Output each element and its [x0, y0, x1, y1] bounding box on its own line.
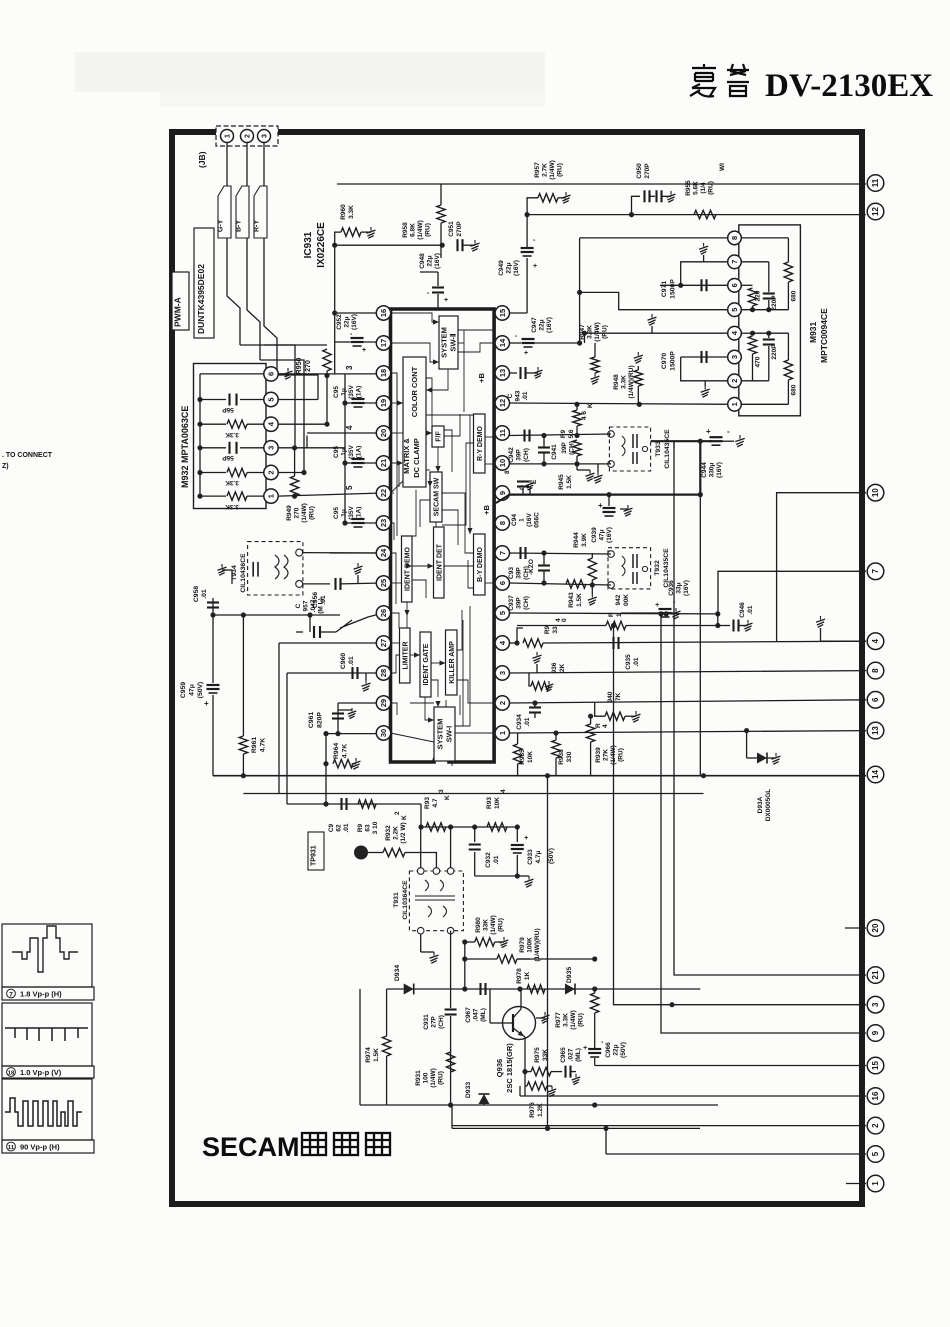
transformer T932 CIL10435CE dashed: [608, 548, 651, 589]
svg-text:K: K: [587, 403, 594, 408]
wire pin10 row: [510, 463, 612, 465]
svg-text:7K: 7K: [615, 693, 622, 702]
svg-text:R974: R974: [365, 1047, 372, 1063]
svg-text:B-Y: B-Y: [236, 220, 243, 232]
wire IC pin23 row: [330, 552, 384, 554]
svg-text:1: 1: [498, 731, 507, 735]
svg-text:C950: C950: [636, 163, 643, 179]
svg-text:.047: .047: [473, 1008, 480, 1021]
svg-text:6.8K: 6.8K: [410, 223, 417, 237]
transistor Q936 2SC1815(GR): [503, 1007, 536, 1040]
svg-text:943: 943: [515, 390, 522, 401]
svg-text:T932: T932: [654, 560, 661, 576]
IC931 pin 6: [495, 576, 509, 590]
wire second bus: [243, 793, 703, 795]
wire branch above pin4: [517, 628, 523, 643]
IC931 pin 30: [376, 726, 390, 740]
svg-text:C948: C948: [419, 253, 426, 269]
svg-text:C965: C965: [560, 1047, 567, 1063]
svg-text:56P: 56P: [222, 406, 234, 413]
terminal 11: [867, 175, 884, 192]
svg-text:4: 4: [345, 425, 354, 430]
wire verticals into T931: [420, 827, 422, 871]
terminal 21: [867, 967, 884, 984]
ground left of T934: [222, 569, 232, 571]
svg-text:1μ: 1μ: [341, 509, 348, 517]
ground right of Q936: [536, 1017, 545, 1019]
svg-text:(RU): (RU): [578, 1013, 585, 1027]
wire T934 to IC pin24: [303, 552, 384, 554]
resistor R955 5.6K(1/4W)(RU): [694, 210, 716, 218]
ground on pin25 row: [357, 575, 359, 583]
capacitor C933 4.7u(50V): [516, 827, 518, 842]
capacitor C967 .047(ML): [479, 983, 481, 995]
capacitor 56P (pin5): [200, 399, 226, 401]
block M931 MPTC0094CE: [739, 225, 801, 416]
svg-text:11: 11: [498, 429, 507, 437]
svg-text:.01: .01: [747, 605, 754, 614]
ground below C970 row: [704, 381, 706, 386]
terminal 7: [867, 563, 884, 580]
resistor R974 1.5K: [386, 989, 388, 1036]
svg-text:6: 6: [871, 697, 880, 702]
svg-text:2: 2: [394, 811, 401, 815]
capacitor C934 .01: [529, 706, 541, 708]
svg-text:SYSTEM: SYSTEM: [440, 327, 449, 358]
resistor R938 330: [555, 733, 557, 740]
svg-text:13: 13: [498, 369, 507, 377]
svg-text:1.5K: 1.5K: [373, 1048, 380, 1062]
svg-text:1: 1: [616, 613, 623, 617]
capacitor C952 22u(16V): [335, 341, 350, 343]
wire to IC pin16: [335, 312, 384, 314]
svg-text:DUNTK4395DE02: DUNTK4395DE02: [196, 264, 206, 334]
capacitor C937 vertical: [538, 564, 550, 566]
diode D93A DX0005GL: [746, 731, 748, 758]
IC931 pin 12: [495, 396, 509, 410]
svg-text:47μ: 47μ: [189, 684, 196, 696]
svg-text:KILLER AMP: KILLER AMP: [449, 641, 456, 684]
svg-text:(16V): (16V): [683, 580, 690, 596]
svg-text:C952: C952: [336, 314, 343, 330]
IC931 pin 9: [495, 486, 509, 500]
svg-text:(1/4: (1/4: [700, 182, 707, 194]
capacitor C957 .047(M L): [309, 615, 311, 632]
svg-text:220P: 220P: [771, 344, 778, 360]
svg-text:+: +: [362, 347, 366, 354]
svg-text:(RU): (RU): [438, 1071, 445, 1085]
svg-text:22μ: 22μ: [613, 1044, 620, 1055]
IC931 pin 11: [495, 426, 509, 440]
svg-text:D93A: D93A: [757, 796, 764, 813]
svg-text:C932: C932: [485, 852, 492, 868]
svg-text:33K: 33K: [542, 1049, 549, 1061]
svg-text:C937: C937: [508, 595, 515, 611]
IC931 pin 3: [495, 666, 509, 680]
ground below T931: [420, 934, 422, 952]
svg-text:(RU): (RU): [708, 181, 715, 195]
svg-text:2: 2: [871, 1123, 880, 1128]
svg-text:17: 17: [379, 339, 388, 347]
wire pin5row corner: [580, 292, 735, 309]
svg-text:R948: R948: [613, 374, 620, 390]
svg-text:14: 14: [871, 770, 880, 779]
flag B-Y: [236, 186, 249, 238]
svg-text:28: 28: [379, 669, 388, 677]
svg-text:C946: C946: [739, 602, 746, 618]
wire terminal 7 corner: [718, 571, 866, 614]
wire pin12 row to M931 pin1: [510, 403, 735, 404]
svg-text:M931: M931: [808, 321, 818, 343]
svg-text:680: 680: [791, 384, 798, 395]
resistor R980 33K(1/4W)(RU): [465, 941, 475, 943]
svg-text:1500P: 1500P: [670, 351, 677, 371]
svg-text:(RU): (RU): [425, 223, 432, 237]
svg-text:(RU): (RU): [602, 325, 609, 339]
resistor R931 100(1/4W)(RU): [446, 1052, 454, 1072]
svg-text:2SC 1815(GR): 2SC 1815(GR): [505, 1043, 514, 1093]
svg-text:R978: R978: [516, 968, 523, 984]
wire M931 pin8 row: [580, 237, 728, 239]
wire R980 vertical: [464, 942, 466, 989]
svg-text:39P: 39P: [516, 449, 523, 461]
wire bus C957 row (pin26): [213, 614, 340, 616]
resistor R945 1.5K: [573, 440, 581, 456]
terminal 12: [867, 203, 884, 220]
M932 pin 5: [264, 392, 278, 406]
wire jog to M932 columns: [240, 345, 295, 448]
svg-text:C941: C941: [551, 444, 558, 460]
svg-text:8: 8: [871, 668, 880, 673]
IC931 pin 8: [495, 516, 509, 530]
diode D933: [483, 1096, 485, 1105]
IC931 pin 26: [376, 606, 390, 620]
svg-text:3: 3: [871, 1002, 880, 1007]
IC931 pin 20: [376, 426, 390, 440]
svg-text:1.8 Vp-p (H): 1.8 Vp-p (H): [20, 990, 62, 999]
svg-text:R-Y DEMO: R-Y DEMO: [477, 426, 484, 461]
svg-text:+: +: [598, 501, 603, 510]
capacitor C954 1u(35V): [345, 462, 352, 464]
svg-text:(1/4W): (1/4W): [490, 915, 497, 935]
resistor R979 100K(1/4W)(RU): [465, 958, 497, 960]
svg-text:11: 11: [8, 1145, 15, 1151]
IC block IDENT DET: [434, 527, 445, 598]
testpoint TP931: [308, 832, 324, 870]
resistor R964 4.7K: [325, 734, 327, 764]
svg-text:F/F: F/F: [436, 431, 443, 442]
wire pin1 row to terminal 13: [510, 731, 867, 733]
svg-text:19: 19: [379, 399, 388, 407]
outer frame: [172, 132, 862, 1204]
thick wire C944 row: [651, 440, 712, 442]
resistor R935 10K: [517, 733, 519, 744]
resistor 3.3K (pin4): [200, 423, 226, 425]
svg-text:11: 11: [871, 178, 880, 187]
capacitor C932 .01: [474, 827, 476, 842]
wire pin8row vertical: [579, 238, 581, 343]
capacitor C944 330u(16V): [710, 436, 723, 438]
svg-text:(16V): (16V): [546, 317, 553, 333]
svg-text:C: C: [507, 393, 514, 398]
IC931 pin 25: [376, 576, 390, 590]
capacitor C943 .01: [510, 372, 518, 374]
svg-text:3: 3: [730, 355, 739, 359]
wire M932 pin2: [278, 472, 304, 474]
capacitor C951 270P: [456, 239, 458, 251]
svg-text:(16V): (16V): [716, 462, 723, 478]
svg-text:(1/4W): (1/4W): [301, 503, 308, 523]
IC931 pin 21: [376, 456, 390, 470]
wire pin7 row: [510, 553, 612, 554]
IC block SYSTEM SW-II: [439, 316, 458, 369]
IC931 pin 27: [376, 636, 390, 650]
svg-text:COLOR CONT: COLOR CONT: [410, 366, 419, 417]
svg-text:16: 16: [379, 309, 388, 317]
svg-text:1: 1: [225, 134, 232, 138]
svg-text:MATRIX &: MATRIX &: [402, 438, 411, 474]
capacitor C936 33u(16V): [621, 612, 661, 614]
M932 internal left bus: [199, 374, 201, 496]
svg-text:5: 5: [498, 611, 507, 615]
resistor R947 3.3K(1/4W)(RU): [594, 343, 596, 357]
IC931 pin 15: [495, 306, 509, 320]
wire vertical x674 to terminal 21: [674, 441, 866, 975]
svg-text:.01: .01: [343, 823, 350, 832]
terminal 16: [867, 1088, 884, 1105]
svg-text:G-Y: G-Y: [218, 219, 225, 232]
svg-text:680: 680: [791, 290, 798, 301]
wire pin4 row resistor R937 33: [510, 642, 518, 644]
svg-text:3.3K: 3.3K: [563, 1013, 570, 1027]
resistor R943 1.5K: [566, 580, 586, 588]
waveform label 1: [2, 987, 94, 1000]
transformer T934 CIL10436CE dashed: [248, 542, 303, 595]
svg-text:C970: C970: [661, 353, 668, 369]
wire M932 pin5 up: [278, 399, 318, 401]
svg-text:C939: C939: [591, 527, 598, 543]
svg-text:(1/4W): (1/4W): [417, 220, 424, 240]
ground stub terminal 4 row: [820, 628, 822, 641]
capacitor C950 270P: [632, 196, 641, 214]
IC block IDENT GATE: [420, 632, 431, 697]
svg-text:9: 9: [871, 1030, 880, 1035]
resistor R975 33K: [525, 1071, 531, 1073]
terminal 10: [867, 484, 884, 501]
wire terminal 20 stub: [845, 927, 866, 929]
svg-text:K: K: [444, 795, 451, 800]
ground right of C961: [338, 709, 352, 711]
wire row to terminal 12: [527, 214, 866, 216]
svg-text:(CH): (CH): [523, 566, 530, 580]
svg-text:C971: C971: [661, 281, 668, 297]
svg-text:IX0226CE: IX0226CE: [316, 222, 327, 268]
M931 pin 8: [728, 231, 742, 245]
terminal 20: [867, 920, 884, 937]
wire pin5 row: [510, 612, 718, 615]
scan smudge band: [75, 52, 545, 92]
svg-text:56P: 56P: [222, 454, 234, 461]
svg-text:C966: C966: [605, 1042, 612, 1058]
capacitor C966 22u(50V): [588, 1048, 601, 1050]
wire IC pin27 row: [279, 642, 384, 644]
IC931 pin 14: [495, 336, 509, 350]
svg-text:12: 12: [871, 207, 880, 216]
svg-text:R9: R9: [544, 625, 551, 634]
svg-text:R932: R932: [385, 825, 392, 841]
wire pin11 row: [510, 434, 612, 436]
svg-text:+: +: [706, 427, 711, 436]
waveform box 3: [2, 1079, 92, 1140]
svg-text:3: 3: [262, 134, 269, 138]
svg-text:C961: C961: [308, 712, 315, 728]
svg-text:6: 6: [498, 581, 507, 585]
IC931 pin 19: [376, 396, 390, 410]
svg-text:3: 3: [345, 365, 354, 370]
resistor R961 4.7K: [242, 615, 244, 736]
svg-text:CIL10436CE: CIL10436CE: [240, 553, 247, 593]
svg-text:SYSTEM: SYSTEM: [436, 719, 445, 750]
svg-text:R943: R943: [568, 592, 575, 608]
svg-text:(16V): (16V): [434, 253, 441, 269]
svg-text:C95: C95: [333, 386, 340, 398]
wire M932 pin1 to IC pin 22: [278, 493, 384, 496]
wire TP931 to R932: [368, 852, 383, 854]
IC931 pin 17: [376, 336, 390, 350]
wire pin3 row to terminal 8: [510, 671, 867, 673]
svg-text:.027: .027: [568, 1048, 575, 1061]
IC931 pin 10: [495, 456, 509, 470]
M931 resistor 680 lower: [753, 332, 789, 334]
svg-text:M932 MPTA0063CE: M932 MPTA0063CE: [180, 406, 190, 488]
svg-text:23: 23: [379, 519, 388, 527]
svg-text:957: 957: [303, 600, 310, 611]
svg-text:R977: R977: [555, 1012, 562, 1028]
svg-text:936: 936: [551, 662, 558, 673]
svg-text:4 6: 4 6: [581, 411, 588, 420]
svg-text:27: 27: [379, 639, 388, 647]
wire bottom bus D933 row: [360, 1104, 718, 1106]
M931 pin 3: [728, 350, 742, 364]
svg-text:D935: D935: [566, 967, 573, 983]
wire row R933/R934: [420, 804, 422, 827]
capacitor C959 47u(50V): [212, 615, 214, 683]
connector pin 2: [241, 130, 254, 143]
svg-text:1: 1: [519, 518, 526, 522]
svg-text:(ML): (ML): [480, 1008, 487, 1022]
svg-text:2: 2: [498, 701, 507, 705]
svg-text:R944: R944: [573, 532, 580, 548]
svg-text:1μ: 1μ: [341, 448, 348, 456]
capacitor C962 .01: [340, 798, 342, 810]
svg-text:(1/4W): (1/4W): [594, 322, 601, 342]
terminal 6: [867, 692, 884, 709]
svg-text:2: 2: [245, 134, 252, 138]
svg-text:3: 3: [267, 446, 276, 450]
M931 internals lower: resistor 470: [741, 332, 752, 334]
svg-text:C942: C942: [508, 447, 515, 463]
terminal 15: [867, 1057, 884, 1074]
IC931 pin 2: [495, 696, 509, 710]
svg-text:(RU): (RU): [557, 163, 564, 177]
svg-text:+: +: [583, 1043, 588, 1052]
svg-text:CIL10364CE: CIL10364CE: [402, 880, 409, 920]
capacitor C960 .01: [287, 672, 384, 674]
svg-text:9: 9: [498, 491, 507, 495]
svg-text:330: 330: [566, 751, 573, 762]
svg-text:C959: C959: [180, 682, 187, 698]
svg-text:33: 33: [552, 626, 559, 634]
svg-text:R: R: [608, 612, 615, 617]
svg-text:.01: .01: [524, 717, 531, 726]
wire M932 pin3 junction R949: [278, 447, 345, 449]
svg-text:R9: R9: [357, 823, 364, 832]
resistor R948 3.3K(1/4W)(RU): [637, 352, 639, 356]
svg-text:IC931: IC931: [303, 231, 314, 258]
svg-text:(1A): (1A): [356, 446, 363, 459]
IC block B-Y DEMO: [474, 534, 486, 595]
svg-text:220P: 220P: [771, 295, 778, 311]
svg-text:13: 13: [871, 726, 880, 735]
switch to IC pin 26: [340, 617, 368, 628]
resistor R949 270 (1/4W)(RU): [294, 448, 296, 476]
svg-text:6: 6: [730, 283, 739, 287]
svg-text:R950: R950: [296, 358, 303, 375]
svg-text:R980: R980: [475, 917, 482, 933]
svg-text:(50V): (50V): [620, 1042, 627, 1058]
svg-text:(1/4W)(RU): (1/4W)(RU): [628, 365, 635, 398]
svg-text:5: 5: [730, 308, 739, 312]
resistor R978 1K: [517, 958, 595, 960]
svg-text:39P: 39P: [561, 442, 568, 454]
svg-text:(35V: (35V: [348, 505, 355, 519]
ground at M932 pin6: [278, 373, 288, 375]
svg-text:4.7μ: 4.7μ: [535, 850, 542, 863]
resistor R977 3.3K(1/4W)(RU): [594, 989, 596, 993]
wire R960 row to R958: [341, 244, 442, 246]
svg-text:LIMITER: LIMITER: [402, 642, 409, 670]
svg-text:14: 14: [498, 338, 507, 347]
capacitor C955 1u(35V): [345, 522, 352, 524]
IC block R-Y DEMO: [474, 414, 486, 473]
svg-text:4.7K: 4.7K: [342, 744, 349, 758]
svg-text:.01: .01: [522, 391, 529, 400]
svg-text:3.9K: 3.9K: [581, 533, 588, 547]
svg-text:330μ: 330μ: [709, 463, 716, 478]
ground below C960: [365, 673, 367, 680]
svg-text:7: 7: [871, 569, 880, 574]
wire terminal 10 corner: [777, 493, 866, 642]
svg-text:4.7K: 4.7K: [260, 738, 267, 752]
flag G-Y: [218, 186, 231, 238]
resistor R960 3.3K: [335, 244, 341, 246]
svg-text:IDENT DEMO: IDENT DEMO: [404, 546, 411, 591]
svg-text:D933: D933: [465, 1082, 472, 1098]
svg-text:(CH): (CH): [523, 448, 530, 462]
svg-text:WI: WI: [719, 163, 726, 171]
svg-text:D934: D934: [394, 965, 401, 981]
M931 internals upper: resistor 220: [741, 284, 752, 286]
svg-text:21: 21: [871, 970, 880, 979]
svg-text:(50V): (50V): [548, 848, 555, 864]
svg-text:1: 1: [267, 494, 276, 498]
svg-text:(16V): (16V): [351, 314, 358, 330]
wire from JB pin1: [226, 143, 228, 186]
svg-text:22μ: 22μ: [344, 316, 351, 327]
terminal 8: [867, 662, 884, 679]
IC block IDENT DEMO: [402, 536, 413, 602]
svg-text:R938: R938: [558, 749, 565, 765]
